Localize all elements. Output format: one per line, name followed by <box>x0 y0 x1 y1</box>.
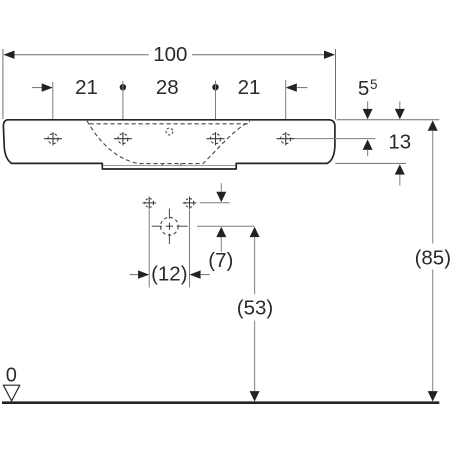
bowl outline dashed <box>87 121 250 164</box>
svg-text:21: 21 <box>75 76 98 99</box>
basin bottom extension line C <box>335 162 406 164</box>
extension line hole 1 <box>52 82 54 129</box>
(12) left arrow pointing right <box>138 270 149 278</box>
extension line hole 3 <box>215 81 217 145</box>
svg-text:(85): (85) <box>415 246 450 269</box>
svg-text:(53): (53) <box>237 297 273 320</box>
extension line small crosshair left <box>148 210 150 288</box>
(7) down arrow <box>220 183 222 191</box>
5^5 down arrow <box>367 101 369 109</box>
(85) dimension bottom arrow <box>428 391 438 401</box>
overflow hole dashed circle <box>166 128 173 135</box>
svg-text:(12): (12) <box>151 263 187 286</box>
floor line <box>2 401 439 404</box>
drain symbol center cross <box>166 223 173 230</box>
dimension 21 right tail <box>297 87 307 89</box>
(12) left tail <box>130 274 139 276</box>
extension line left of 100 <box>2 49 4 119</box>
(12) right tail <box>201 274 210 276</box>
(53) line lower <box>254 321 256 392</box>
svg-text:28: 28 <box>156 76 179 99</box>
dimension 21 left tail <box>32 87 42 89</box>
extension line hole 4 <box>285 80 287 145</box>
extension line small crosshair right <box>189 210 191 288</box>
drain symbol arms <box>152 209 188 244</box>
drain tick left <box>162 163 164 166</box>
dimension 100 line <box>14 54 324 56</box>
svg-text:21: 21 <box>238 76 261 99</box>
bowl rim dashed line <box>90 123 251 125</box>
drain tick right <box>180 163 182 166</box>
svg-text:(7): (7) <box>208 249 233 272</box>
(53) top arrow <box>250 227 260 237</box>
leader from small crosshair right <box>200 202 230 204</box>
(12) right arrow pointing left <box>190 270 201 278</box>
tap hole crosshair 4 <box>277 132 295 145</box>
(7) up arrow <box>216 227 226 237</box>
small crosshair right <box>183 197 197 210</box>
dimension 21 arrow pointing right <box>42 83 53 91</box>
tap hole crosshair 2 <box>114 132 132 145</box>
svg-text:100: 100 <box>153 43 187 66</box>
tap hole crosshair 1 <box>44 132 62 145</box>
leader line from hole 4 to 13 dim <box>295 138 376 140</box>
dot marker at hole 3 <box>212 84 218 90</box>
tap hole crosshair 3 <box>207 132 225 145</box>
svg-text:0: 0 <box>6 364 17 386</box>
extension line right of 100 <box>335 49 337 120</box>
extension line hole 2 <box>122 81 124 145</box>
basin top extension line A <box>337 119 440 121</box>
dimension 100 right arrow <box>324 51 335 59</box>
(53) line upper <box>254 237 256 294</box>
13 down arrow <box>399 101 401 109</box>
datum triangle <box>3 385 20 401</box>
dot marker at hole 2 <box>120 84 126 90</box>
drain symbol dashed circle <box>161 217 179 235</box>
5^5 up arrow <box>363 140 373 150</box>
svg-text:5: 5 <box>358 77 369 100</box>
basin outline <box>3 120 335 169</box>
(85) dimension line upper <box>432 131 434 244</box>
small crosshair left <box>142 197 156 210</box>
dimension 100 left arrow <box>3 51 14 59</box>
dimension 21 right arrow pointing left <box>286 83 297 91</box>
13 up arrow <box>395 164 405 174</box>
drain level line <box>197 225 255 227</box>
(85) dimension top arrow <box>428 120 438 130</box>
tab hidden top edge <box>103 164 235 166</box>
svg-text:5: 5 <box>370 77 378 92</box>
(53) bottom arrow <box>250 391 260 401</box>
svg-text:13: 13 <box>388 130 411 153</box>
(85) dimension line lower <box>432 270 434 392</box>
